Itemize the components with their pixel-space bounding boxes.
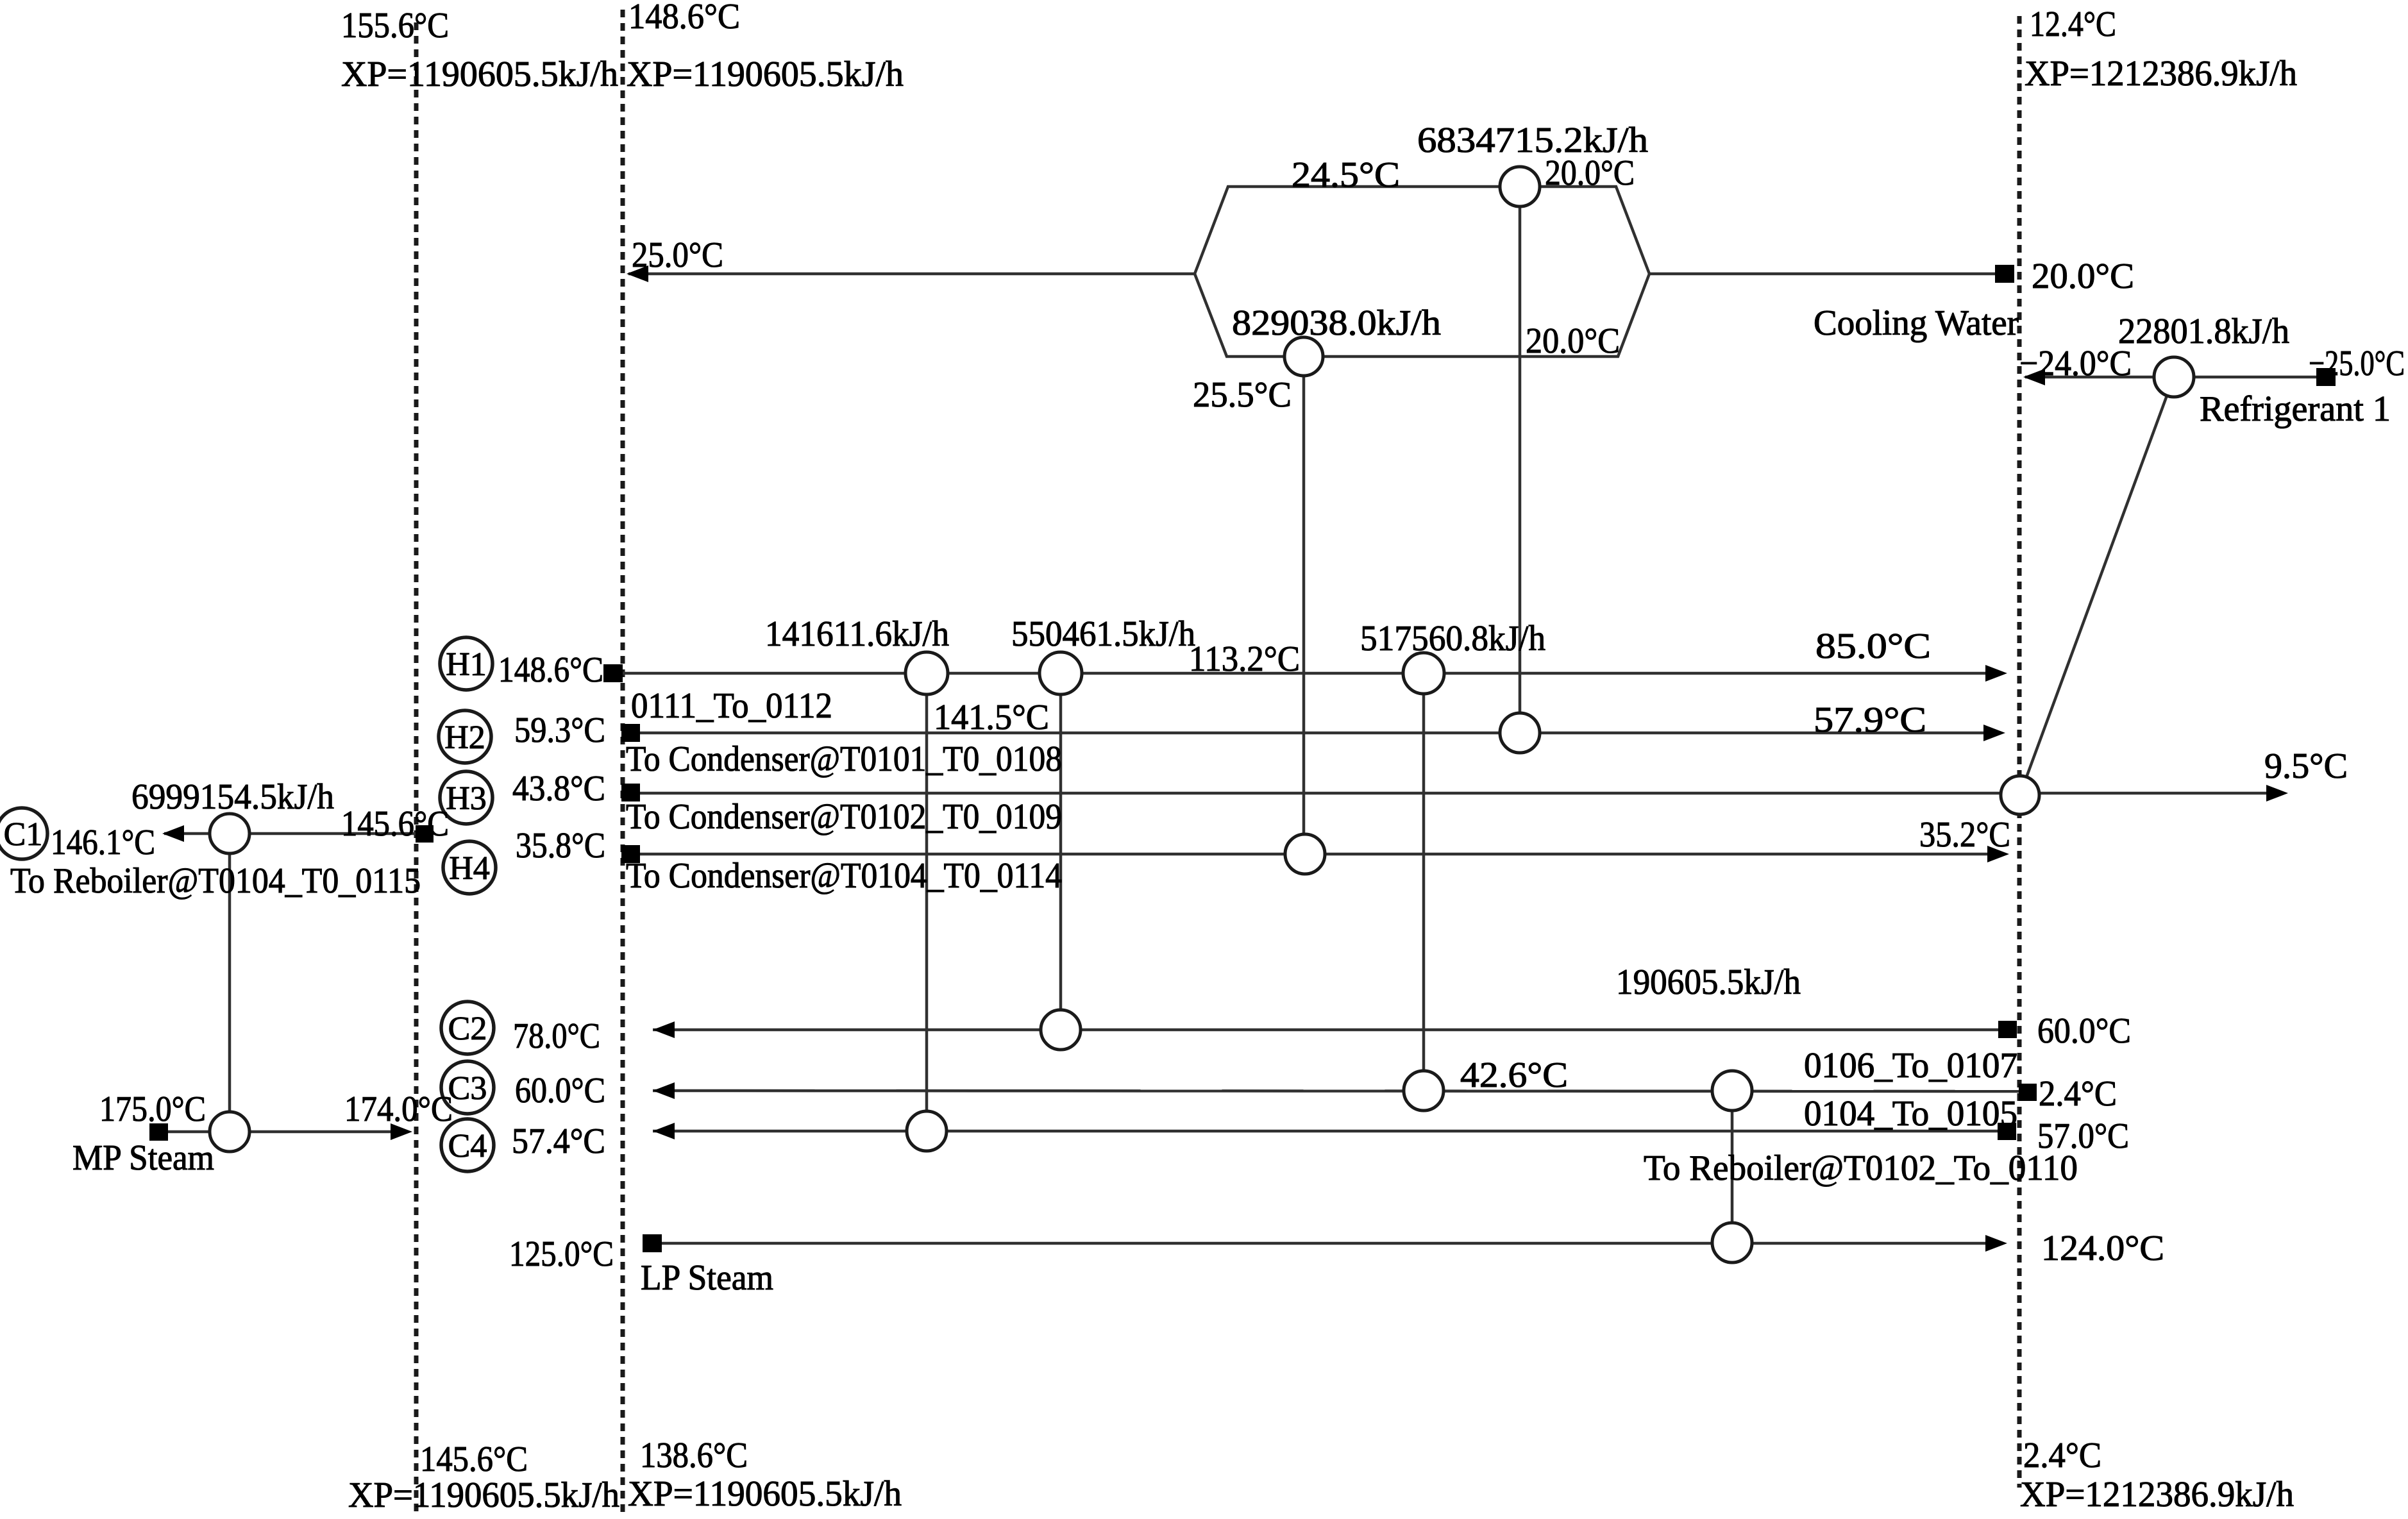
svg-text:85.0°C: 85.0°C <box>1815 626 1931 666</box>
svg-text:9.5°C: 9.5°C <box>2264 746 2348 786</box>
svg-text:XP=1190605.5kJ/h: XP=1190605.5kJ/h <box>627 55 904 94</box>
svg-text:146.1°C: 146.1°C <box>51 823 155 862</box>
svg-text:XP=1190605.5kJ/h: XP=1190605.5kJ/h <box>341 55 618 94</box>
svg-text:125.0°C: 125.0°C <box>509 1234 614 1274</box>
svg-text:78.0°C: 78.0°C <box>513 1016 600 1056</box>
svg-text:To Condenser@T0101_T0_0108: To Condenser@T0101_T0_0108 <box>626 739 1062 779</box>
svg-text:0104_To_0105: 0104_To_0105 <box>1804 1094 2017 1134</box>
svg-text:138.6°C: 138.6°C <box>640 1436 748 1475</box>
svg-text:24.5°C: 24.5°C <box>1292 155 1400 195</box>
svg-text:43.8°C: 43.8°C <box>512 769 605 809</box>
svg-text:To Condenser@T0102_T0_0109: To Condenser@T0102_T0_0109 <box>626 797 1062 837</box>
svg-text:20.0°C: 20.0°C <box>1545 153 1635 193</box>
svg-text:25.5°C: 25.5°C <box>1193 375 1292 415</box>
svg-text:LP Steam: LP Steam <box>641 1258 773 1298</box>
svg-text:20.0°C: 20.0°C <box>1526 321 1620 361</box>
svg-text:C3: C3 <box>448 1070 487 1107</box>
svg-text:141.5°C: 141.5°C <box>934 698 1049 737</box>
svg-text:H1: H1 <box>446 646 487 683</box>
svg-text:12.4°C: 12.4°C <box>2030 4 2116 44</box>
svg-text:42.6°C: 42.6°C <box>1460 1055 1568 1095</box>
svg-text:25.0°C: 25.0°C <box>632 235 723 275</box>
svg-text:0111_To_0112: 0111_To_0112 <box>631 686 832 726</box>
svg-text:175.0°C: 175.0°C <box>99 1089 206 1129</box>
svg-text:0106_To_0107: 0106_To_0107 <box>1804 1046 2017 1086</box>
svg-text:6999154.5kJ/h: 6999154.5kJ/h <box>131 777 334 817</box>
svg-text:XP=1212386.9kJ/h: XP=1212386.9kJ/h <box>2020 1475 2294 1515</box>
svg-text:141611.6kJ/h: 141611.6kJ/h <box>765 614 949 654</box>
svg-text:To Reboiler@T0104_T0_0115: To Reboiler@T0104_T0_0115 <box>10 861 421 901</box>
svg-text:517560.8kJ/h: 517560.8kJ/h <box>1360 619 1545 659</box>
svg-text:35.2°C: 35.2°C <box>1919 815 2010 855</box>
svg-text:H2: H2 <box>444 719 485 756</box>
svg-text:To Condenser@T0104_T0_0114: To Condenser@T0104_T0_0114 <box>626 856 1062 896</box>
svg-text:C1: C1 <box>4 816 43 853</box>
svg-text:−25.0°C: −25.0°C <box>2309 344 2405 383</box>
svg-text:59.3°C: 59.3°C <box>514 710 605 750</box>
svg-text:550461.5kJ/h: 550461.5kJ/h <box>1011 614 1195 654</box>
svg-text:124.0°C: 124.0°C <box>2041 1229 2164 1268</box>
svg-text:60.0°C: 60.0°C <box>515 1071 605 1111</box>
svg-text:2.4°C: 2.4°C <box>2023 1436 2101 1475</box>
svg-text:C2: C2 <box>448 1011 487 1047</box>
svg-text:148.6°C: 148.6°C <box>498 650 603 690</box>
svg-text:XP=1190605.5kJ/h: XP=1190605.5kJ/h <box>628 1474 902 1514</box>
svg-text:829038.0kJ/h: 829038.0kJ/h <box>1232 303 1441 343</box>
svg-text:113.2°C: 113.2°C <box>1189 639 1300 679</box>
svg-text:Refrigerant 1: Refrigerant 1 <box>2200 389 2391 429</box>
svg-text:155.6°C: 155.6°C <box>341 6 449 46</box>
svg-text:148.6°C: 148.6°C <box>628 0 740 37</box>
svg-text:XP=1190605.5kJ/h: XP=1190605.5kJ/h <box>348 1475 619 1515</box>
svg-text:−24.0°C: −24.0°C <box>2019 344 2132 383</box>
svg-text:H3: H3 <box>446 780 487 817</box>
svg-text:35.8°C: 35.8°C <box>516 826 605 866</box>
svg-text:174.0°C: 174.0°C <box>344 1089 453 1129</box>
svg-text:Cooling Water: Cooling Water <box>1814 303 2019 343</box>
svg-text:MP Steam: MP Steam <box>72 1138 214 1178</box>
svg-text:190605.5kJ/h: 190605.5kJ/h <box>1616 962 1801 1002</box>
svg-text:22801.8kJ/h: 22801.8kJ/h <box>2118 312 2289 351</box>
svg-text:145.6°C: 145.6°C <box>420 1439 528 1479</box>
svg-text:H4: H4 <box>449 850 490 887</box>
svg-text:145.6°C: 145.6°C <box>341 804 449 844</box>
svg-text:2.4°C: 2.4°C <box>2039 1074 2117 1114</box>
svg-text:57.4°C: 57.4°C <box>512 1121 605 1161</box>
svg-text:60.0°C: 60.0°C <box>2037 1011 2131 1051</box>
svg-text:XP=1212386.9kJ/h: XP=1212386.9kJ/h <box>2025 54 2297 94</box>
svg-text:To Reboiler@T0102_To_0110: To Reboiler@T0102_To_0110 <box>1644 1148 2078 1188</box>
svg-text:C4: C4 <box>448 1128 487 1164</box>
svg-text:57.9°C: 57.9°C <box>1814 700 1926 740</box>
svg-text:20.0°C: 20.0°C <box>2032 256 2134 296</box>
